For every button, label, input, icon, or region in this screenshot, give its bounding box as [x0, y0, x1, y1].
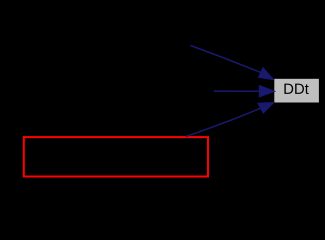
arrowhead of edge 1 — [259, 68, 274, 80]
arrowhead of edge 3 — [258, 103, 274, 114]
arrowhead of edge 2 — [259, 86, 275, 97]
node DDt (grey filled box) — [274, 79, 319, 103]
edge 1: top caller to DDt (wire) — [191, 46, 261, 73]
node (red highlighted caller box) — [24, 137, 208, 176]
edge 3: red caller node to DDt (wire) — [186, 108, 261, 136]
edge 2: middle caller to DDt (wire) — [214, 90, 260, 92]
